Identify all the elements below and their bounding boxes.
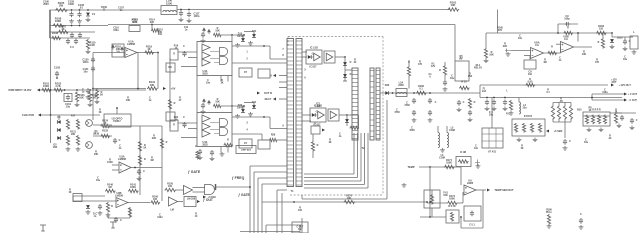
svg-text:C 0.1: C 0.1: [469, 225, 475, 227]
svg-text:C: C: [183, 46, 185, 48]
svg-text:LIMIT ADJ: LIMIT ADJ: [241, 148, 252, 151]
svg-text:C120100n: C120100n: [82, 58, 89, 65]
svg-text:+12V OUT: +12V OUT: [619, 84, 631, 87]
svg-text:R106100K: R106100K: [55, 17, 62, 24]
svg-text:C: C: [143, 170, 145, 173]
svg-text:R11: R11: [158, 34, 163, 36]
svg-text:CHG OVR: CHG OVR: [22, 113, 34, 117]
svg-text:D30: D30: [385, 84, 390, 87]
svg-text:D: D: [270, 75, 272, 78]
svg-text:R R: R R: [71, 116, 75, 118]
svg-text:R: R: [317, 144, 319, 147]
svg-text:+5 REF: +5 REF: [208, 196, 217, 199]
svg-text:C110100n: C110100n: [113, 26, 119, 31]
svg-text:OUT B: OUT B: [264, 91, 272, 95]
svg-text:L1001500: L1001500: [166, 0, 173, 5]
svg-text:R108: R108: [52, 31, 59, 35]
svg-text:RN: RN: [168, 67, 172, 69]
svg-text:TH110K: TH110K: [443, 192, 448, 198]
svg-text:R29: R29: [271, 134, 276, 136]
svg-text:D: D: [350, 73, 352, 76]
svg-text:ƒ GATE: ƒ GATE: [188, 170, 201, 174]
svg-text:- C OUT: - C OUT: [628, 100, 637, 102]
svg-text:R R R R: R R R R: [592, 109, 601, 111]
svg-text:+5V: +5V: [171, 87, 176, 91]
svg-text:C C: C C: [70, 46, 74, 49]
svg-text:R190PULL: R190PULL: [546, 209, 553, 213]
svg-text:R: R: [474, 101, 476, 104]
svg-text:R10: R10: [577, 109, 582, 112]
svg-text:U7 431: U7 431: [488, 151, 497, 154]
svg-text:R: R: [166, 141, 168, 144]
svg-text:TEMP: TEMP: [407, 165, 414, 169]
svg-text:+5 SEN: +5 SEN: [554, 130, 563, 133]
svg-text:C: C: [120, 219, 122, 222]
svg-text:LM: LM: [170, 209, 174, 212]
svg-text:C C10u: C C10u: [489, 111, 494, 117]
svg-text:R172100K: R172100K: [449, 195, 456, 201]
svg-text:C117100n: C117100n: [194, 12, 201, 19]
svg-text:R141100K: R141100K: [130, 184, 137, 190]
svg-text:C102: C102: [54, 66, 61, 70]
svg-text:R 4.7K: R 4.7K: [448, 205, 456, 208]
svg-text:TEMP SEN OUT: TEMP SEN OUT: [494, 188, 514, 192]
svg-text:U4A3525: U4A3525: [202, 141, 208, 147]
svg-text:R: R: [144, 158, 146, 161]
svg-text:C100250V: C100250V: [43, 0, 49, 5]
svg-text:PWR INPUT 12-35V: PWR INPUT 12-35V: [9, 89, 32, 92]
svg-text:R1024.7K: R1024.7K: [55, 81, 62, 88]
svg-text:R: R: [567, 27, 569, 29]
svg-text:C: C: [435, 101, 437, 104]
svg-text:C: C: [195, 145, 197, 148]
svg-text:LM 358: LM 358: [187, 198, 196, 201]
svg-text:R: R: [174, 102, 176, 105]
svg-text:D: D: [350, 61, 352, 64]
svg-text:ƒ GATE: ƒ GATE: [238, 193, 250, 197]
svg-text:R: R: [439, 69, 441, 72]
svg-text:IC LED: IC LED: [310, 46, 318, 49]
svg-text:U4A3525: U4A3525: [202, 70, 208, 76]
svg-text:C: C: [569, 140, 571, 143]
svg-text:IC 817: IC 817: [310, 66, 318, 68]
svg-text:C1051000: C1051000: [68, 0, 75, 6]
svg-text:R125: R125: [102, 129, 109, 132]
svg-text:ƒ FREQ: ƒ FREQ: [232, 176, 245, 180]
svg-text:R: R: [598, 42, 600, 44]
svg-text:R1124.7K: R1124.7K: [132, 19, 138, 24]
svg-text:C: C: [580, 214, 582, 216]
svg-text:R171100K: R171100K: [446, 159, 453, 165]
svg-text:C: C: [183, 117, 185, 119]
svg-text:+ C OUT: + C OUT: [628, 94, 638, 96]
svg-text:RECT: RECT: [265, 98, 272, 101]
svg-text:R101100K: R101100K: [43, 81, 50, 88]
svg-text:R: R: [227, 138, 229, 141]
svg-text:R 10: R 10: [461, 81, 467, 84]
svg-text:R R R R: R R R R: [524, 116, 533, 118]
svg-text:C: C: [463, 101, 465, 104]
svg-text:R: R: [111, 206, 113, 208]
svg-text:+12VOUT: +12VOUT: [611, 79, 617, 84]
svg-text:R: R: [551, 46, 553, 49]
svg-text:R C: R C: [506, 114, 510, 116]
svg-text:R 1M: R 1M: [460, 151, 466, 154]
svg-text:C: C: [119, 139, 121, 142]
